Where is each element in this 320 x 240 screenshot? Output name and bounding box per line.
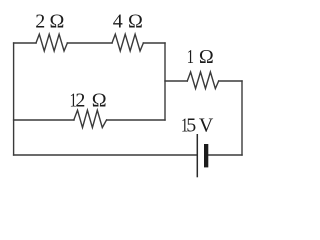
label 12 ohm: [70, 88, 107, 111]
wire: left vertical: [13, 43, 15, 155]
wire: bottom right segment from battery: [208, 154, 242, 156]
svg-text:Ω: Ω: [199, 46, 214, 68]
battery B1 long plate (positive): [196, 134, 198, 177]
wire: 12ohm branch right segment: [107, 119, 165, 121]
svg-text:Ω: Ω: [92, 90, 107, 112]
label 4 ohm: [113, 11, 143, 33]
wire: 1ohm branch right segment: [219, 80, 242, 82]
svg-text:4: 4: [113, 11, 123, 33]
wire: bottom left segment to battery: [14, 154, 197, 156]
label 2 ohm: [35, 11, 64, 33]
svg-text:2: 2: [35, 11, 45, 33]
svg-text:1: 1: [187, 45, 194, 68]
label 1 ohm: [187, 45, 214, 68]
resistor R4 1ohm zigzag: [187, 72, 218, 89]
resistor R1 2ohm zigzag: [36, 34, 67, 51]
svg-text:V: V: [199, 114, 214, 136]
resistor R3 12ohm zigzag: [74, 110, 107, 127]
wire: right vertical: [241, 81, 243, 155]
wire: middle vertical: [164, 43, 166, 120]
svg-text:Ω: Ω: [128, 11, 143, 33]
svg-text:2: 2: [75, 90, 85, 112]
label 15 V: [181, 113, 214, 136]
wire: top middle segment: [67, 42, 112, 44]
svg-text:5: 5: [186, 114, 196, 136]
wire: 1ohm branch left segment: [165, 80, 187, 82]
wire: top left segment: [14, 42, 36, 44]
wire: 12ohm branch left segment: [14, 119, 74, 121]
resistor R2 4ohm zigzag: [112, 34, 143, 51]
battery B1 short thick plate (negative): [204, 144, 208, 167]
wire: top right segment: [143, 42, 165, 44]
svg-text:Ω: Ω: [50, 11, 65, 33]
